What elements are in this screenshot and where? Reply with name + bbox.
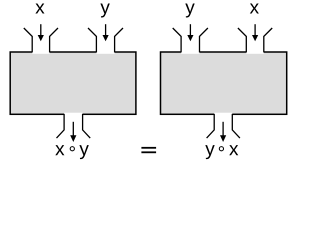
- equals sign: [141, 147, 156, 153]
- input port funnel x (right box, right): [238, 28, 272, 52]
- arrow into right box input x: [252, 24, 258, 41]
- label x (left box first input): [35, 4, 44, 14]
- label x (right box second input): [250, 4, 259, 14]
- arrow into left box input x: [38, 24, 44, 41]
- arrow out of right box: [220, 122, 226, 142]
- arrow into right box input y: [187, 24, 193, 41]
- input port funnel y (left box, right): [88, 28, 123, 52]
- arrow into left box input y: [103, 24, 109, 41]
- box 1 (left operator box): [10, 50, 136, 116]
- input port funnel x (left box, left): [24, 28, 58, 52]
- box 2 (right operator box): [161, 50, 287, 116]
- label y (left box second input): [100, 4, 109, 18]
- output port funnel (left box, bottom): [57, 114, 91, 138]
- arrow out of left box: [70, 122, 76, 142]
- label y (right box first input): [185, 4, 194, 18]
- label x∘y (left box output): [55, 145, 88, 159]
- label y∘x (right box output): [205, 145, 238, 159]
- output port funnel (right box, bottom): [207, 114, 240, 138]
- input port funnel y (right box, left): [173, 28, 208, 52]
